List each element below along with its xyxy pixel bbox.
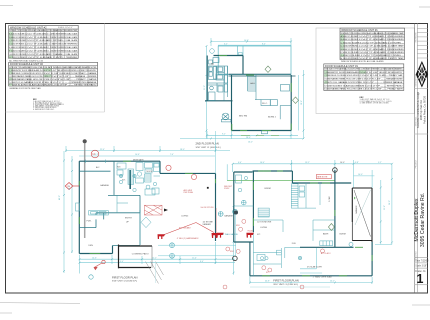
svg-text:SD: SD bbox=[266, 272, 269, 274]
svg-text:9'-8": 9'-8" bbox=[355, 162, 359, 164]
svg-text:REVISIONS: REVISIONS bbox=[416, 32, 418, 43]
diamond tag deck bbox=[265, 66, 271, 72]
dim ticks bbox=[63, 150, 217, 273]
svg-text:6 5068 SLIDING GLASS ALUMINUM: 6 5068 SLIDING GLASS ALUMINUM 5'-0"x6'-8… bbox=[9, 84, 97, 87]
svg-text:UP: UP bbox=[126, 222, 130, 224]
dimension lines bbox=[227, 160, 392, 284]
svg-text:5/SD2: 5/SD2 bbox=[224, 188, 229, 190]
svg-text:Pollock Pines, Ca. 95726: Pollock Pines, Ca. 95726 bbox=[423, 95, 426, 124]
svg-text:2 2868 SELF CLOSING SOLID WOOD: 2 2868 SELF CLOSING SOLID WOOD 2'-8"x6'-… bbox=[9, 72, 97, 75]
svg-text:2 2868 SELF CLOSING SOLID WOOD: 2 2868 SELF CLOSING SOLID WOOD 2'-8"x6'-… bbox=[324, 74, 403, 77]
svg-text:BA: BA bbox=[211, 63, 214, 66]
red revision curve + dogs bbox=[163, 223, 214, 236]
col lines bbox=[13, 29, 64, 58]
svg-text:2-CAR: 2-CAR bbox=[328, 196, 331, 202]
svg-text:20'-0": 20'-0" bbox=[69, 185, 71, 190]
svg-text:1: 1 bbox=[417, 272, 424, 286]
svg-text:2ND FLOOR PLAN: 2ND FLOOR PLAN bbox=[196, 142, 219, 146]
svg-text:NOOK: NOOK bbox=[147, 171, 154, 173]
tag circle top bbox=[210, 49, 215, 54]
svg-text:G 4030 XO SLIDER 4'-0"x3'-0" T: G 4030 XO SLIDER 4'-0"x3'-0" T/P .40 MIL… bbox=[341, 54, 404, 57]
plan label bbox=[273, 279, 299, 286]
svg-text:HD2A: HD2A bbox=[248, 229, 254, 232]
outer walls bbox=[234, 170, 372, 276]
logo diamond bbox=[416, 61, 428, 88]
svg-text:B 4040 XO SLIDER 4'-0"x4'-0" T: B 4040 XO SLIDER 4'-0"x4'-0" T/P .40 MIL… bbox=[341, 38, 405, 41]
red texts bbox=[177, 186, 233, 240]
svg-text:McDermott Duplex: McDermott Duplex bbox=[414, 198, 420, 241]
svg-text:5 5068 SLIDING GLASS ALUMINUM: 5 5068 SLIDING GLASS ALUMINUM 5'-0"x6'-8… bbox=[324, 84, 403, 87]
svg-text:18'-6": 18'-6" bbox=[301, 100, 303, 105]
date/scale/drawn rows bbox=[415, 258, 428, 285]
svg-text:PER PLAN: PER PLAN bbox=[184, 191, 194, 194]
interior walls bbox=[79, 161, 140, 245]
svg-text:A 5040 XO SLIDER 5'-0"x4'-0" T: A 5040 XO SLIDER 5'-0"x4'-0" T/P .40 MIL… bbox=[341, 35, 405, 38]
tiny row text smears bbox=[9, 29, 78, 59]
dimension lines bbox=[180, 38, 304, 139]
viewport boundary left bbox=[6, 24, 415, 114]
dark circle tag bbox=[333, 168, 338, 173]
svg-text:3. SEE SHEET 2 FOR SECTIONS: 3. SEE SHEET 2 FOR SECTIONS bbox=[360, 103, 390, 105]
svg-text:8'-6": 8'-6" bbox=[200, 261, 204, 263]
svg-text:14'-0": 14'-0" bbox=[340, 162, 345, 164]
svg-text:1/2 STONE VNR: 1/2 STONE VNR bbox=[257, 221, 272, 223]
room labels bbox=[224, 188, 358, 245]
patio dark walls bbox=[119, 245, 153, 269]
svg-text:1 3068 ENTRY DOOR FIBERGLASS 3: 1 3068 ENTRY DOOR FIBERGLASS 3'-0"x6'-8"… bbox=[9, 69, 97, 72]
svg-text:SYM SIZE TYPE MATERIAL ROUGH O: SYM SIZE TYPE MATERIAL ROUGH OPEN CORE R… bbox=[9, 66, 97, 69]
svg-text:SYM SIZE TYPE ROUGH OPEN GLAZ: SYM SIZE TYPE ROUGH OPEN GLAZ U-VAL MANU… bbox=[9, 29, 78, 32]
green accents bbox=[79, 161, 215, 253]
svg-text:PDR.: PDR. bbox=[87, 221, 92, 223]
dim texts bbox=[59, 149, 197, 260]
row lines bbox=[9, 35, 79, 55]
room labels bbox=[87, 159, 189, 256]
viewport boundary right bbox=[316, 28, 415, 114]
svg-text:GENERAL DOOR NOTE: SEE PLAN: GENERAL DOOR NOTE: SEE PLAN bbox=[9, 87, 41, 90]
dimension lines bbox=[64, 146, 235, 274]
svg-text:40'-8": 40'-8" bbox=[265, 281, 270, 283]
svg-text:21'-0": 21'-0" bbox=[204, 85, 206, 90]
svg-text:F 5030 XO SLIDER 5'-0"x3'-0" T: F 5030 XO SLIDER 5'-0"x3'-0" T/P .40 MIL… bbox=[9, 49, 78, 52]
dim texts bbox=[204, 40, 303, 144]
svg-text:H 2020 FX FIXED 2'-0"x2'-0" T/: H 2020 FX FIXED 2'-0"x2'-0" T/P .40 MILG… bbox=[341, 57, 405, 60]
svg-text:ENTRY: ENTRY bbox=[125, 218, 133, 220]
svg-text:2" SAND OVER SLAB: 2" SAND OVER SLAB bbox=[313, 276, 332, 279]
svg-text:C 3030 XO SLIDER 3'-0"x3'-0" T: C 3030 XO SLIDER 3'-0"x3'-0" T/P .40 MIL… bbox=[341, 41, 404, 44]
company text (rotated) bbox=[417, 91, 426, 128]
svg-text:DIN.: DIN. bbox=[292, 243, 297, 245]
svg-text:3/16" UNIT #1 (1140 S.F.): 3/16" UNIT #1 (1140 S.F.) bbox=[273, 284, 298, 286]
svg-text:E 6040 XO SLIDER 6'-0"x4'-0" T: E 6040 XO SLIDER 6'-0"x4'-0" T/P .40 MIL… bbox=[341, 48, 405, 51]
svg-text:LIVING: LIVING bbox=[181, 216, 188, 218]
svg-text:KIT.: KIT. bbox=[257, 234, 261, 236]
svg-text:SW2: SW2 bbox=[230, 251, 234, 253]
svg-text:Scale 3/16": Scale 3/16" bbox=[415, 266, 427, 268]
svg-text:G 4030 XO SLIDER 4'-0"x3'-0" T: G 4030 XO SLIDER 4'-0"x3'-0" T/P .40 MIL… bbox=[9, 53, 78, 56]
svg-text:SEE NOTE: SEE NOTE bbox=[317, 177, 328, 179]
svg-text:GARAGE: GARAGE bbox=[100, 184, 110, 187]
svg-text:4' WALL HARDIE: 4' WALL HARDIE bbox=[223, 233, 238, 236]
svg-text:H 2020 FX FIXED 2'-0"x2'-0" T/: H 2020 FX FIXED 2'-0"x2'-0" T/P .40 MILG… bbox=[9, 56, 78, 59]
svg-text:4 2668 RAISED PANEL HOLLOW COR: 4 2668 RAISED PANEL HOLLOW CORE 2'-6"x6'… bbox=[9, 78, 97, 81]
svg-text:2x6 DF STUDS: 2x6 DF STUDS bbox=[201, 207, 215, 209]
svg-text:W.I.C.: W.I.C. bbox=[262, 103, 268, 105]
svg-text:26'-0": 26'-0" bbox=[389, 200, 391, 205]
svg-text:SYM SIZE TYPE ROUGH OPEN GLAZ: SYM SIZE TYPE ROUGH OPEN GLAZ U-VAL MANU… bbox=[341, 32, 405, 35]
interior walls / fixtures bbox=[234, 175, 335, 276]
revision rows bbox=[415, 28, 428, 134]
svg-text:B 4040 XO SLIDER 4'-0"x4'-0" T: B 4040 XO SLIDER 4'-0"x4'-0" T/P .40 MIL… bbox=[9, 36, 78, 39]
svg-text:FIRST FLOOR PLAN: FIRST FLOOR PLAN bbox=[273, 279, 299, 283]
interior light walls / fixtures bbox=[208, 58, 291, 134]
green accents bbox=[219, 56, 291, 136]
svg-text:MSTR BATH: MSTR BATH bbox=[133, 159, 144, 162]
svg-text:D 2030 SH HUNG 2'-0"x3'-0" T/P: D 2030 SH HUNG 2'-0"x3'-0" T/P .40 MILGA… bbox=[341, 45, 405, 48]
svg-text:14'-0": 14'-0" bbox=[358, 174, 363, 176]
svg-text:ATTIC ACC.: ATTIC ACC. bbox=[321, 252, 332, 255]
svg-text:6 2668 RAISED PANEL HOLLOW COR: 6 2668 RAISED PANEL HOLLOW CORE 2'-6"x6'… bbox=[324, 88, 403, 91]
notes block left bbox=[33, 99, 65, 111]
svg-text:C 3030 XO SLIDER 3'-0"x3'-0" T: C 3030 XO SLIDER 3'-0"x3'-0" T/P .40 MIL… bbox=[9, 39, 78, 42]
svg-text:COVERED PATIO: COVERED PATIO bbox=[132, 252, 149, 255]
diamond tag bbox=[328, 224, 334, 231]
svg-text:22'-6": 22'-6" bbox=[384, 205, 386, 210]
svg-text:LIVING: LIVING bbox=[260, 227, 267, 229]
red hold-down symbols bbox=[216, 233, 224, 238]
svg-text:3 2868 RAISED PANEL HOLLOW COR: 3 2868 RAISED PANEL HOLLOW CORE 2'-8"x6'… bbox=[324, 78, 403, 81]
svg-text:8'-4": 8'-4" bbox=[262, 44, 266, 46]
svg-text:HALL: HALL bbox=[250, 82, 256, 85]
svg-text:CHECKED: CHECKED bbox=[416, 251, 418, 260]
svg-text:A/C: A/C bbox=[96, 166, 100, 169]
svg-text:5 16070 O.H. GARAGE DOOR STEEL: 5 16070 O.H. GARAGE DOOR STEEL 16'-0"x7'… bbox=[9, 81, 97, 84]
svg-text:11'-4": 11'-4" bbox=[192, 257, 197, 259]
svg-text:WINDOW SCHEDULE NOTE: ALL DUAL: WINDOW SCHEDULE NOTE: ALL DUAL GLAZED bbox=[341, 60, 384, 63]
svg-text:ALL WINDOWS DUAL GLAZED U=0.4: ALL WINDOWS DUAL GLAZED U=0.40 bbox=[9, 59, 43, 62]
title block frame bbox=[414, 23, 416, 293]
project text (rotated) bbox=[414, 193, 426, 247]
red arrow marker bottom bbox=[94, 260, 105, 269]
svg-text:14'-6": 14'-6" bbox=[244, 40, 249, 42]
svg-text:40'-0": 40'-0" bbox=[59, 195, 61, 200]
notes block right bbox=[360, 97, 393, 105]
grid line with bubble bbox=[83, 139, 87, 143]
green col cells bbox=[9, 32, 13, 59]
red diamond tag left bbox=[65, 183, 79, 190]
outer walls bbox=[79, 161, 215, 253]
svg-text:4% SLAB SLOPE: 4% SLAB SLOPE bbox=[307, 265, 323, 268]
svg-text:6'-2": 6'-2" bbox=[224, 44, 228, 46]
svg-text:16'-0": 16'-0" bbox=[248, 142, 253, 144]
svg-text:BDRM: BDRM bbox=[265, 188, 271, 190]
green accents bbox=[253, 171, 372, 276]
svg-text:6'-0": 6'-0" bbox=[238, 162, 242, 164]
svg-text:BDRM: BDRM bbox=[340, 234, 346, 236]
svg-text:28'-0": 28'-0" bbox=[246, 137, 251, 139]
svg-text:F 5030 XO SLIDER 5'-0"x3'-0" T: F 5030 XO SLIDER 5'-0"x3'-0" T/P .40 MIL… bbox=[341, 51, 405, 54]
svg-text:D 2030 SH HUNG 2'-0"x3'-0" T/P: D 2030 SH HUNG 2'-0"x3'-0" T/P .40 MILGA… bbox=[9, 43, 78, 46]
cyan tag circles bbox=[89, 209, 238, 279]
long vertical line between plans bbox=[215, 131, 217, 173]
dim texts bbox=[238, 162, 391, 283]
svg-text:18'-0": 18'-0" bbox=[180, 149, 185, 151]
svg-text:STL. BM ABV.: STL. BM ABV. bbox=[179, 227, 191, 230]
svg-text:GARAGE: GARAGE bbox=[355, 205, 358, 214]
svg-text:E 6040 XO SLIDER 6'-0"x4'-0" T: E 6040 XO SLIDER 6'-0"x4'-0" T/P .40 MIL… bbox=[9, 46, 78, 49]
svg-text:5'-2": 5'-2" bbox=[378, 162, 382, 164]
red X shear panel bbox=[144, 205, 162, 215]
svg-text:SW1: SW1 bbox=[236, 225, 240, 227]
svg-text:3095 Cedar Ravine Rd.: 3095 Cedar Ravine Rd. bbox=[420, 193, 426, 247]
svg-text:1 3068 ENTRY DOOR FIBERGLASS 3: 1 3068 ENTRY DOOR FIBERGLASS 3'-0"x6'-8"… bbox=[324, 71, 403, 74]
balcony diamond right bbox=[141, 217, 151, 228]
svg-text:9'-2": 9'-2" bbox=[95, 154, 99, 156]
svg-text:BDRM 2: BDRM 2 bbox=[268, 116, 277, 118]
svg-text:DEN: DEN bbox=[89, 245, 94, 247]
deck outline (thin) bbox=[218, 46, 291, 75]
svg-text:BED RM: BED RM bbox=[239, 116, 247, 118]
svg-text:10'-6": 10'-6" bbox=[135, 154, 140, 156]
svg-text:VENEER: VENEER bbox=[203, 224, 212, 226]
svg-text:SYM SIZE TYPE MATERIAL ROUGH O: SYM SIZE TYPE MATERIAL ROUGH OPEN CORE R… bbox=[324, 68, 403, 71]
garage dark bbox=[352, 188, 372, 242]
svg-text:14'-6": 14'-6" bbox=[92, 257, 97, 259]
red hold-down symbols (solid) bbox=[158, 234, 166, 239]
diamond tag right bbox=[293, 97, 299, 103]
svg-text:3 2868 RAISED PANEL HOLLOW COR: 3 2868 RAISED PANEL HOLLOW CORE 2'-8"x6'… bbox=[9, 75, 97, 78]
svg-text:9'-2": 9'-2" bbox=[222, 134, 226, 136]
svg-text:7'-4": 7'-4" bbox=[170, 154, 174, 156]
dim ticks bbox=[206, 41, 305, 140]
svg-text:Date 7/20/04: Date 7/20/04 bbox=[415, 259, 429, 262]
svg-text:13'-2": 13'-2" bbox=[305, 162, 310, 164]
svg-text:22'-4": 22'-4" bbox=[100, 149, 105, 151]
svg-text:BATH: BATH bbox=[323, 233, 329, 236]
outer walls bbox=[205, 56, 296, 131]
plan label bbox=[112, 275, 138, 282]
garage interior fixtures, bath, stairs bbox=[76, 160, 160, 216]
dim ticks bbox=[232, 163, 393, 284]
plan label bbox=[196, 142, 221, 149]
green top wall line bbox=[227, 179, 335, 181]
red tag on top dim bbox=[91, 150, 99, 158]
svg-text:16'-4": 16'-4" bbox=[260, 162, 265, 164]
svg-text:3/16" UNIT #2 (1536 S.F.): 3/16" UNIT #2 (1536 S.F.) bbox=[112, 281, 137, 283]
room labels bbox=[211, 63, 277, 119]
svg-text:4 16070 O.H. GARAGE DOOR STEEL: 4 16070 O.H. GARAGE DOOR STEEL 16'-0"x7'… bbox=[324, 81, 403, 84]
svg-text:20'-0": 20'-0" bbox=[330, 281, 335, 283]
red box text top bbox=[316, 175, 331, 179]
svg-text:3/16" UNIT #2 (1003 S.F.): 3/16" UNIT #2 (1003 S.F.) bbox=[196, 147, 221, 149]
svg-text:PROJECT: PROJECT bbox=[416, 159, 418, 168]
svg-text:W/D: W/D bbox=[117, 167, 121, 169]
red tags bbox=[223, 219, 325, 289]
svg-text:KIT.: KIT. bbox=[122, 180, 126, 182]
svg-text:12'-2": 12'-2" bbox=[152, 257, 157, 259]
svg-text:A 5040 XO SLIDER 5'-0"x4'-0" T: A 5040 XO SLIDER 5'-0"x4'-0" T/P .40 MIL… bbox=[9, 32, 78, 35]
svg-text:9'-0": 9'-0" bbox=[120, 261, 124, 263]
svg-text:4' TALL (2) HARDIEBACK: 4' TALL (2) HARDIEBACK bbox=[177, 237, 200, 240]
svg-text:FIRST FLOOR PLAN: FIRST FLOOR PLAN bbox=[112, 275, 138, 279]
svg-text:6. SMOKE DET. PER U.B.C.: 6. SMOKE DET. PER U.B.C. bbox=[33, 109, 55, 111]
svg-text:GARAGE: GARAGE bbox=[224, 215, 234, 218]
